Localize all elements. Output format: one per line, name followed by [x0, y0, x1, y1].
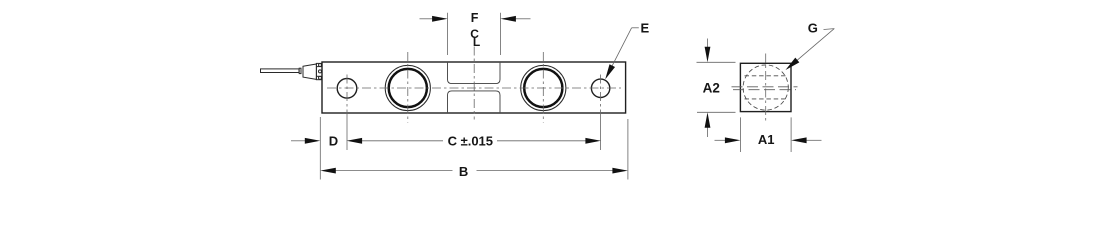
- svg-text:E: E: [640, 20, 649, 35]
- svg-text:A2: A2: [703, 81, 720, 96]
- svg-text:C ±.015: C ±.015: [448, 133, 493, 148]
- svg-text:F: F: [471, 11, 479, 25]
- svg-text:G: G: [808, 21, 818, 36]
- svg-text:L: L: [473, 35, 480, 49]
- svg-text:B: B: [459, 164, 468, 179]
- svg-text:A1: A1: [758, 132, 775, 147]
- svg-text:D: D: [329, 133, 338, 148]
